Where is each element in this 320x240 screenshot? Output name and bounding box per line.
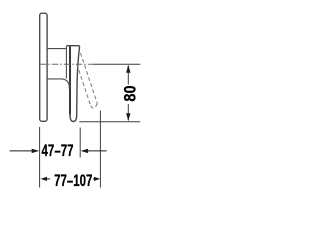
svg-text:47–77: 47–77 (42, 141, 74, 160)
svg-text:80: 80 (122, 85, 140, 101)
svg-text:77–107: 77–107 (54, 171, 92, 190)
